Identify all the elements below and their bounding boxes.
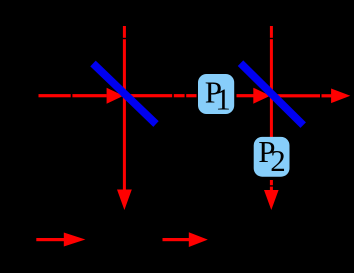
wire: input beam segment (left horizontal) [39,94,107,97]
legend arrow 2 (bottom middle) [163,232,208,247]
arrowhead into beam splitter BS2 [253,88,270,104]
wire: vertical beam below P2 [270,180,273,190]
beam splitter BS2 (blue diagonal) [241,63,304,125]
arrowhead: downward output of BS2 [264,190,279,210]
polarizer P2 box [254,134,290,178]
wire: vertical beam through BS2 into P2 [270,26,273,138]
wire: beam segment BS1 to P1 (horizontal) [126,94,197,97]
wire: beam segment P1 to BS2 (horizontal) [237,94,254,97]
legend arrow 1 (bottom left) [36,233,85,247]
beam splitter BS1 (blue diagonal) [93,64,156,125]
svg-text:1: 1 [215,82,231,117]
arrowhead: downward output of BS1 [117,190,132,211]
wire: vertical beam through BS1 [123,26,126,190]
polarizer P1 box [198,74,234,117]
arrowhead into beam splitter BS1 [107,88,124,104]
arrowhead: far right output [331,89,350,104]
svg-text:2: 2 [270,143,286,178]
wire: output beam right of BS2 (horizontal) [273,94,331,97]
